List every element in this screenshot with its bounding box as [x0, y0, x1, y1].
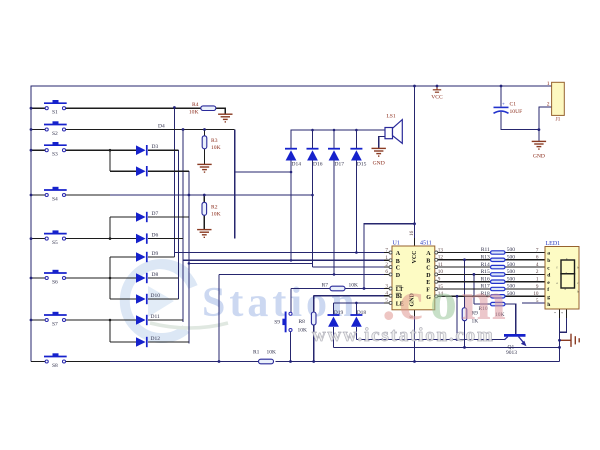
svg-text:6: 6 [536, 255, 539, 261]
svg-text:D16: D16 [313, 161, 323, 167]
svg-text:1: 1 [385, 255, 388, 261]
svg-text:A: A [426, 251, 431, 257]
svg-text:o: o [430, 271, 457, 331]
svg-text:S8: S8 [52, 363, 58, 369]
svg-text:R2: R2 [211, 205, 218, 211]
svg-text:S2: S2 [52, 131, 58, 137]
svg-text:S3: S3 [52, 152, 58, 158]
svg-text:R14: R14 [481, 262, 490, 268]
svg-text:10K: 10K [349, 283, 359, 289]
svg-text:f: f [547, 287, 549, 293]
svg-text:S6: S6 [52, 280, 58, 286]
svg-text:f: f [557, 266, 558, 270]
svg-text:500: 500 [507, 284, 516, 290]
svg-text:S1: S1 [52, 110, 58, 116]
svg-text:S7: S7 [52, 322, 58, 328]
svg-text:4: 4 [536, 262, 539, 268]
svg-text:5: 5 [536, 298, 539, 304]
svg-text:+: + [502, 103, 505, 108]
svg-text:R8: R8 [299, 319, 306, 325]
svg-text:LED1: LED1 [546, 241, 561, 247]
svg-text:U1: U1 [393, 240, 400, 246]
svg-text:D14: D14 [292, 161, 302, 167]
svg-text:g: g [547, 295, 550, 301]
svg-text:D3: D3 [152, 144, 159, 150]
svg-text:10K: 10K [189, 109, 199, 115]
svg-text:m: m [461, 271, 506, 331]
svg-text:10K: 10K [267, 349, 277, 355]
svg-text:9013: 9013 [506, 350, 517, 356]
svg-text:7: 7 [536, 247, 539, 253]
svg-text:1: 1 [547, 81, 550, 87]
svg-text:VCC: VCC [431, 95, 443, 101]
svg-text:B: B [396, 259, 400, 265]
svg-text:500: 500 [507, 247, 516, 253]
svg-text:500: 500 [507, 276, 516, 282]
svg-text:D10: D10 [151, 293, 161, 299]
svg-text:10UF: 10UF [510, 109, 523, 115]
svg-text:1: 1 [553, 312, 557, 314]
svg-text:11: 11 [438, 262, 443, 268]
svg-text:.: . [382, 271, 396, 331]
svg-text:a: a [547, 251, 550, 257]
svg-text:A: A [396, 251, 401, 257]
svg-text:D6: D6 [152, 232, 159, 238]
svg-text:10: 10 [533, 291, 539, 297]
svg-text:D11: D11 [151, 314, 161, 320]
svg-text:R13: R13 [481, 255, 490, 261]
svg-text:b: b [547, 258, 550, 264]
svg-text:500: 500 [507, 262, 516, 268]
svg-text:LS1: LS1 [386, 114, 396, 120]
svg-text:7: 7 [385, 247, 388, 253]
svg-text:D9: D9 [152, 251, 159, 257]
svg-text:1: 1 [536, 277, 539, 283]
svg-text:R11: R11 [481, 247, 490, 253]
svg-text:D19: D19 [334, 310, 344, 316]
svg-text:C1: C1 [510, 102, 517, 108]
svg-text:VCC: VCC [412, 251, 418, 264]
svg-text:D7: D7 [152, 211, 159, 217]
svg-text:13: 13 [438, 247, 444, 253]
svg-text:c: c [399, 271, 423, 331]
svg-text:D18: D18 [357, 310, 367, 316]
svg-text:10K: 10K [298, 327, 308, 333]
svg-text:D8: D8 [152, 272, 159, 278]
svg-text:D12: D12 [151, 336, 161, 342]
svg-text:R7: R7 [322, 283, 329, 289]
svg-text:2: 2 [547, 102, 550, 108]
svg-text:www.icstation.com: www.icstation.com [312, 325, 495, 346]
svg-text:D17: D17 [335, 161, 345, 167]
svg-text:S9: S9 [274, 320, 280, 326]
svg-text:GND: GND [373, 161, 385, 167]
svg-text:R4: R4 [192, 102, 199, 108]
svg-text:R1: R1 [253, 349, 260, 355]
svg-text:B: B [426, 258, 430, 264]
svg-text:J1: J1 [556, 117, 561, 123]
svg-text:10K: 10K [211, 212, 221, 218]
svg-text:10K: 10K [211, 145, 221, 151]
svg-text:S4: S4 [52, 197, 58, 203]
svg-text:500: 500 [507, 255, 516, 261]
svg-text:500: 500 [507, 291, 516, 297]
svg-text:2: 2 [385, 262, 388, 268]
svg-text:R3: R3 [211, 138, 218, 144]
svg-text:GND: GND [533, 154, 545, 160]
svg-text:12: 12 [438, 255, 444, 261]
svg-text:16: 16 [409, 230, 415, 236]
svg-text:500: 500 [507, 269, 516, 275]
svg-text:S5: S5 [52, 240, 58, 246]
svg-text:9: 9 [536, 284, 539, 290]
svg-text:4511: 4511 [420, 240, 432, 246]
svg-text:D15: D15 [357, 161, 367, 167]
svg-text:2: 2 [536, 269, 539, 275]
svg-text:2: 2 [560, 312, 564, 314]
svg-text:D4: D4 [158, 124, 165, 130]
